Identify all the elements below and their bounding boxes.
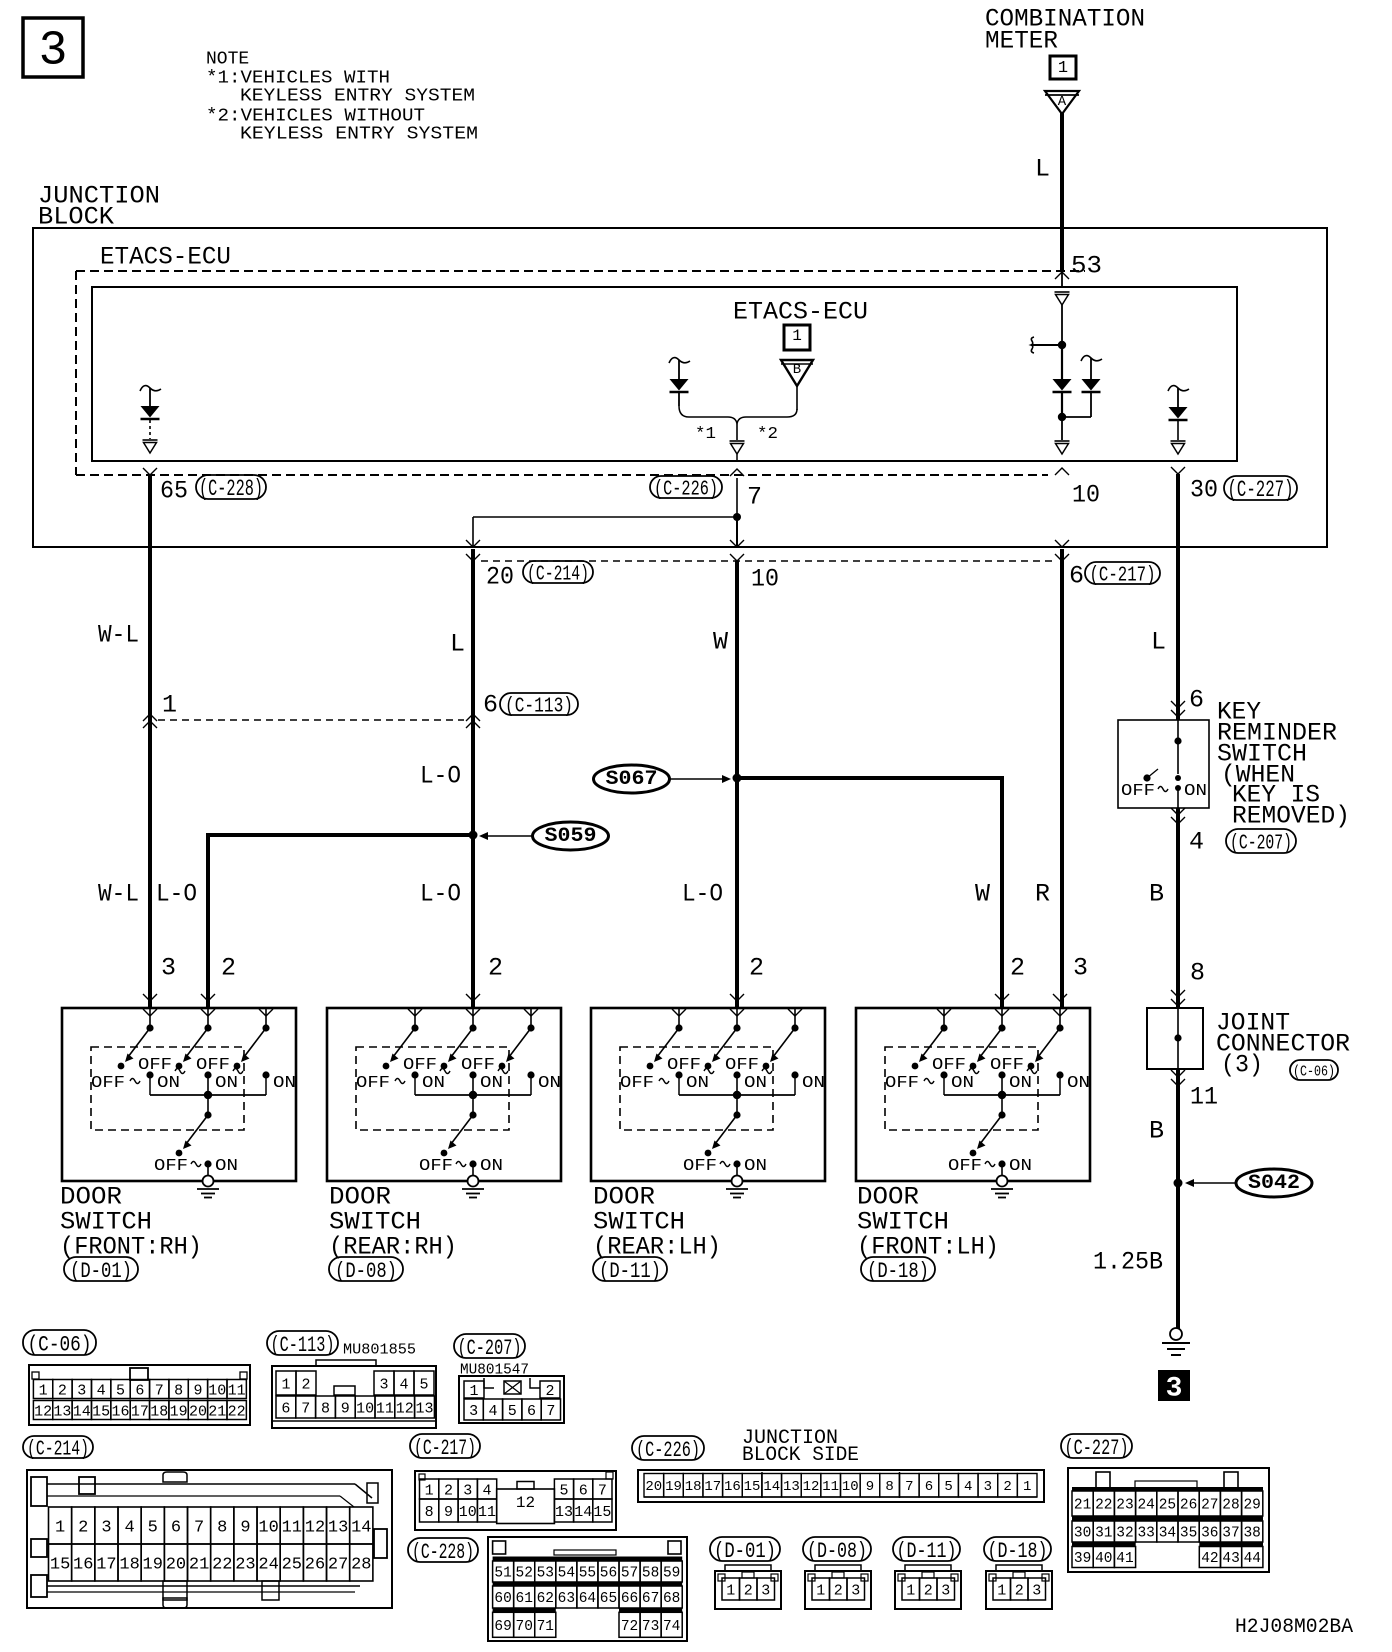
connector label C-226 — [650, 476, 722, 498]
svg-text:16: 16 — [73, 1556, 93, 1575]
svg-text:W: W — [975, 880, 990, 909]
svg-text:L: L — [450, 630, 465, 659]
connector C-228 pinout — [488, 1537, 687, 1641]
svg-text:5: 5 — [116, 1382, 125, 1399]
svg-text:(C-226): (C-226) — [654, 478, 718, 501]
svg-text:(C-226): (C-226) — [636, 1438, 700, 1463]
svg-text:1: 1 — [39, 1382, 48, 1399]
svg-text:A: A — [1058, 94, 1067, 110]
combination meter connector symbol 1/A — [1045, 56, 1079, 114]
svg-text:4: 4 — [1189, 828, 1204, 857]
svg-text:1: 1 — [906, 1582, 915, 1599]
svg-text:68: 68 — [663, 1591, 680, 1607]
svg-text:11: 11 — [228, 1382, 246, 1399]
door switch front LH caption — [857, 1183, 999, 1262]
svg-text:(C-207): (C-207) — [1230, 832, 1292, 855]
svg-text:B: B — [793, 362, 801, 378]
svg-text:8: 8 — [1190, 959, 1205, 988]
svg-text:3: 3 — [1166, 1374, 1183, 1405]
svg-text:7: 7 — [155, 1382, 164, 1399]
connector label C-207 — [1226, 829, 1296, 853]
wire L (pin 30 to key reminder switch) — [1176, 474, 1180, 720]
connector label D-11 — [593, 1257, 667, 1281]
diode for pin 30 — [1168, 386, 1189, 454]
svg-text:56: 56 — [600, 1566, 617, 1582]
svg-text:21: 21 — [208, 1403, 226, 1420]
svg-text:14: 14 — [351, 1519, 371, 1538]
wire R riser (pin 6 to front LH switch) — [1060, 549, 1064, 1008]
svg-text:9: 9 — [444, 1504, 453, 1521]
svg-text:16: 16 — [112, 1403, 130, 1420]
svg-text:6: 6 — [1069, 562, 1084, 591]
svg-text:L-O: L-O — [420, 880, 461, 909]
connector label D-18 — [861, 1257, 935, 1281]
junction block side caption — [742, 1427, 859, 1467]
key reminder switch box — [1118, 720, 1209, 808]
svg-text:7: 7 — [598, 1482, 607, 1499]
connector label C-207 — [454, 1334, 525, 1358]
svg-text:5: 5 — [944, 1479, 952, 1495]
svg-text:5: 5 — [508, 1403, 517, 1420]
svg-text:40: 40 — [1095, 1551, 1112, 1567]
svg-text:8: 8 — [885, 1479, 893, 1495]
connector label C-217 — [410, 1434, 480, 1458]
svg-text:3: 3 — [851, 1582, 860, 1599]
svg-text:7: 7 — [905, 1479, 913, 1495]
key reminder entry arrows — [1171, 701, 1185, 708]
connector label D-08 — [329, 1257, 403, 1281]
svg-text:*1:VEHICLES WITH: *1:VEHICLES WITH — [206, 69, 390, 89]
svg-text:*1: *1 — [695, 425, 716, 444]
svg-text:10: 10 — [1072, 481, 1100, 510]
svg-text:66: 66 — [621, 1591, 638, 1607]
svg-text:(D-11): (D-11) — [599, 1259, 661, 1284]
svg-text:2: 2 — [744, 1582, 753, 1599]
svg-text:1.25B: 1.25B — [1093, 1248, 1163, 1277]
connector C-227 pinout — [1068, 1468, 1269, 1572]
svg-text:6: 6 — [579, 1482, 588, 1499]
svg-text:6: 6 — [135, 1382, 144, 1399]
svg-text:13: 13 — [53, 1403, 71, 1420]
connector label D-01 — [64, 1257, 138, 1281]
svg-text:12: 12 — [305, 1519, 325, 1538]
svg-text:4: 4 — [964, 1479, 972, 1495]
wire pin 7 segment — [733, 478, 741, 548]
key reminder switch caption — [1217, 698, 1350, 831]
connector label C-06 — [23, 1330, 96, 1355]
svg-text:31: 31 — [1095, 1526, 1112, 1542]
svg-text:15: 15 — [50, 1556, 70, 1575]
svg-text:13: 13 — [415, 1400, 433, 1417]
svg-text:14: 14 — [763, 1479, 780, 1495]
svg-text:(D-18): (D-18) — [867, 1259, 929, 1284]
svg-text:18: 18 — [150, 1403, 168, 1420]
svg-text:9: 9 — [193, 1382, 202, 1399]
svg-text:(D-08): (D-08) — [807, 1539, 867, 1564]
svg-text:ON: ON — [1009, 1157, 1032, 1176]
svg-text:2: 2 — [301, 1376, 310, 1393]
svg-text:ON: ON — [215, 1074, 238, 1093]
svg-text:9: 9 — [866, 1479, 874, 1495]
connector label D-08 (bottom) — [803, 1537, 871, 1561]
svg-text:1: 1 — [816, 1582, 825, 1599]
svg-text:65: 65 — [160, 477, 188, 506]
svg-text:OFF: OFF — [885, 1074, 919, 1093]
connector D-11 pinout — [895, 1565, 961, 1609]
svg-text:16: 16 — [724, 1479, 741, 1495]
door switch rear RH (D-08) — [327, 994, 561, 1198]
pin 10 boundary arrow — [1055, 468, 1069, 475]
svg-text:1: 1 — [1058, 59, 1068, 78]
svg-text:(D-01): (D-01) — [70, 1259, 132, 1284]
door switch front RH caption — [60, 1183, 202, 1262]
note text — [206, 50, 478, 145]
svg-text:15: 15 — [92, 1403, 110, 1420]
svg-text:2: 2 — [488, 954, 503, 983]
svg-text:OFF: OFF — [403, 1056, 437, 1075]
wire pin7/10 crossing arrows — [730, 540, 744, 547]
svg-text:17: 17 — [704, 1479, 721, 1495]
svg-text:3: 3 — [39, 25, 68, 79]
svg-text:65: 65 — [600, 1591, 617, 1607]
svg-text:28: 28 — [1222, 1498, 1239, 1514]
svg-text:ON: ON — [1184, 782, 1207, 801]
svg-text:8: 8 — [425, 1504, 434, 1521]
svg-text:12: 12 — [803, 1479, 820, 1495]
svg-text:6: 6 — [171, 1519, 181, 1538]
svg-text:7: 7 — [194, 1519, 204, 1538]
svg-text:7: 7 — [546, 1403, 555, 1420]
svg-text:8: 8 — [217, 1519, 227, 1538]
svg-text:14: 14 — [73, 1403, 91, 1420]
svg-text:22: 22 — [212, 1556, 232, 1575]
svg-text:7: 7 — [747, 483, 762, 512]
svg-text:W-L: W-L — [98, 621, 139, 650]
svg-text:6: 6 — [1189, 686, 1204, 715]
svg-text:13: 13 — [555, 1504, 573, 1521]
svg-text:2: 2 — [834, 1582, 843, 1599]
svg-text:17: 17 — [131, 1403, 149, 1420]
svg-text:L-O: L-O — [156, 880, 197, 909]
connector C-06 pinout — [29, 1365, 250, 1425]
svg-text:43: 43 — [1222, 1551, 1239, 1567]
svg-text:1: 1 — [425, 1482, 434, 1499]
svg-text:ON: ON — [802, 1074, 825, 1093]
svg-text:B: B — [1149, 880, 1164, 909]
svg-text:5: 5 — [419, 1376, 428, 1393]
svg-text:ON: ON — [273, 1074, 296, 1093]
connector D-08 pinout — [805, 1565, 871, 1609]
svg-text:OFF: OFF — [196, 1056, 230, 1075]
svg-text:KEYLESS ENTRY SYSTEM: KEYLESS ENTRY SYSTEM — [240, 125, 478, 145]
svg-text:MU801855: MU801855 — [343, 1342, 416, 1359]
svg-text:ETACS-ECU: ETACS-ECU — [100, 243, 231, 272]
svg-text:3: 3 — [761, 1582, 770, 1599]
svg-text:10: 10 — [842, 1479, 859, 1495]
svg-text:3: 3 — [941, 1582, 950, 1599]
svg-text:24: 24 — [258, 1556, 278, 1575]
svg-text:4: 4 — [399, 1376, 408, 1393]
svg-text:4: 4 — [124, 1519, 134, 1538]
joint connector exit arrows — [1171, 1070, 1185, 1077]
svg-text:OFF: OFF — [91, 1074, 125, 1093]
diode for pin 65 — [140, 386, 161, 453]
svg-text:22: 22 — [228, 1403, 246, 1420]
svg-text:11: 11 — [282, 1519, 302, 1538]
svg-text:53: 53 — [1071, 252, 1102, 281]
svg-text:15: 15 — [744, 1479, 761, 1495]
svg-text:6: 6 — [925, 1479, 933, 1495]
svg-text:(C-214): (C-214) — [527, 563, 589, 586]
svg-text:(C-217): (C-217) — [414, 1436, 476, 1461]
junction block label — [38, 182, 160, 232]
svg-text:19: 19 — [170, 1403, 188, 1420]
svg-text:8: 8 — [321, 1400, 330, 1417]
splice S067 junction — [733, 774, 1003, 1009]
svg-text:S042: S042 — [1248, 1172, 1300, 1195]
connector dashed line C-214/C-217 — [481, 560, 1053, 562]
svg-text:70: 70 — [516, 1619, 533, 1635]
ETACS-ECU dashed boundary — [76, 271, 1085, 475]
joint connector caption — [1216, 1009, 1350, 1080]
svg-text:10: 10 — [208, 1382, 226, 1399]
door switch rear LH (D-11) — [591, 994, 825, 1198]
svg-text:OFF: OFF — [667, 1056, 701, 1075]
svg-text:27: 27 — [1201, 1498, 1218, 1514]
svg-text:(C-228): (C-228) — [199, 476, 263, 502]
svg-text:6: 6 — [527, 1403, 536, 1420]
wire L from combination meter pin 53 — [1060, 113, 1064, 270]
svg-text:3: 3 — [469, 1403, 478, 1420]
svg-text:ETACS-ECU: ETACS-ECU — [733, 298, 868, 327]
svg-text:2: 2 — [1003, 1479, 1011, 1495]
svg-text:2: 2 — [749, 954, 764, 983]
connector C-214 pinout — [27, 1470, 392, 1608]
svg-text:OFF: OFF — [620, 1074, 654, 1093]
connector label C-226 (bottom) — [632, 1436, 704, 1460]
svg-text:H2J08M02BA: H2J08M02BA — [1235, 1616, 1353, 1639]
svg-text:OFF: OFF — [138, 1056, 172, 1075]
svg-text:71: 71 — [537, 1619, 554, 1635]
svg-text:10: 10 — [258, 1519, 278, 1538]
svg-text:7: 7 — [301, 1400, 310, 1417]
pin 53 internal circuit with twin diodes — [1031, 292, 1102, 454]
svg-text:4: 4 — [483, 1482, 492, 1499]
svg-text:(D-11): (D-11) — [897, 1539, 957, 1564]
svg-text:22: 22 — [1095, 1498, 1112, 1514]
svg-text:29: 29 — [1243, 1498, 1260, 1514]
diode *1 — [669, 358, 690, 406]
connector label C-113 — [500, 693, 578, 715]
svg-text:(C-207): (C-207) — [458, 1336, 522, 1361]
connector label C-214 — [523, 561, 593, 583]
svg-text:13: 13 — [328, 1519, 348, 1538]
connector D-18 pinout — [986, 1565, 1052, 1609]
connector label C-227 (bottom) — [1061, 1434, 1132, 1458]
junction block box — [33, 228, 1327, 547]
svg-text:2: 2 — [1015, 1582, 1024, 1599]
svg-text:3: 3 — [1073, 954, 1088, 983]
svg-text:ON: ON — [215, 1157, 238, 1176]
svg-text:20: 20 — [189, 1403, 207, 1420]
svg-text:3: 3 — [463, 1482, 472, 1499]
svg-text:38: 38 — [1243, 1526, 1260, 1542]
svg-text:59: 59 — [663, 1566, 680, 1582]
svg-text:2: 2 — [221, 954, 236, 983]
svg-text:(D-18): (D-18) — [988, 1539, 1048, 1564]
connector label C-214 — [23, 1436, 93, 1458]
svg-text:(3): (3) — [1221, 1051, 1263, 1080]
svg-text:11: 11 — [1190, 1083, 1218, 1112]
svg-text:OFF: OFF — [683, 1157, 717, 1176]
svg-text:*2: *2 — [757, 425, 778, 444]
svg-text:W: W — [713, 628, 728, 657]
svg-text:OFF: OFF — [356, 1074, 390, 1093]
connector C-113 pinout — [272, 1360, 436, 1428]
pin 7 boundary arrow — [730, 469, 744, 476]
pin 7 output arrow — [730, 440, 745, 442]
pin 53 connector arrow — [1055, 272, 1069, 279]
connector D-01 pinout — [715, 1565, 781, 1609]
svg-text:1: 1 — [792, 327, 802, 345]
svg-text:1: 1 — [55, 1519, 65, 1538]
svg-text:S067: S067 — [606, 768, 658, 791]
C-113 dashed connector line — [158, 719, 464, 721]
svg-text:19: 19 — [143, 1556, 163, 1575]
svg-text:35: 35 — [1180, 1526, 1197, 1542]
svg-text:69: 69 — [494, 1619, 511, 1635]
svg-text:(D-01): (D-01) — [714, 1539, 776, 1564]
svg-text:4: 4 — [488, 1403, 497, 1420]
pin 6 arrows (C-113) — [466, 714, 480, 721]
svg-text:2: 2 — [58, 1382, 67, 1399]
svg-text:55: 55 — [579, 1566, 596, 1582]
svg-text:20: 20 — [166, 1556, 186, 1575]
pin 6 crossing arrows (C-217) — [1055, 540, 1069, 547]
svg-text:(C-214): (C-214) — [27, 1438, 89, 1461]
svg-text:18: 18 — [685, 1479, 702, 1495]
svg-text:23: 23 — [1116, 1498, 1133, 1514]
svg-text:(D-08): (D-08) — [335, 1259, 397, 1284]
svg-text:20: 20 — [645, 1479, 662, 1495]
svg-text:ON: ON — [744, 1157, 767, 1176]
svg-text:OFF: OFF — [419, 1157, 453, 1176]
svg-text:54: 54 — [558, 1566, 575, 1582]
connector label C-227 — [1224, 476, 1297, 500]
svg-text:OFF: OFF — [932, 1056, 966, 1075]
connector label D-01 (bottom) — [710, 1537, 780, 1561]
triangle B symbol with box 1 (keyless) — [781, 325, 813, 410]
svg-text:18: 18 — [119, 1556, 139, 1575]
svg-text:1: 1 — [726, 1582, 735, 1599]
svg-text:14: 14 — [574, 1504, 592, 1521]
svg-text:30: 30 — [1190, 476, 1218, 505]
svg-text:5: 5 — [148, 1519, 158, 1538]
svg-text:2: 2 — [545, 1383, 554, 1400]
svg-text:L: L — [1035, 155, 1050, 184]
ground symbol (body ground) — [1162, 1328, 1190, 1355]
connector C-207 pinout — [459, 1376, 564, 1423]
svg-text:23: 23 — [235, 1556, 255, 1575]
svg-text:67: 67 — [642, 1591, 659, 1607]
svg-text:L-O: L-O — [420, 762, 461, 791]
svg-text:2: 2 — [924, 1582, 933, 1599]
svg-text:64: 64 — [579, 1591, 596, 1607]
svg-text:17: 17 — [96, 1556, 116, 1575]
svg-text:ON: ON — [1067, 1074, 1090, 1093]
svg-text:3: 3 — [101, 1519, 111, 1538]
splice S042 — [1174, 1169, 1313, 1197]
wire W/L-O riser (pin 10 to rear LH switch) — [735, 561, 739, 1008]
svg-text:(C-113): (C-113) — [505, 695, 573, 718]
svg-text:ON: ON — [422, 1074, 445, 1093]
svg-text:ON: ON — [744, 1074, 767, 1093]
wire W-L pin 65 down to door switch front RH — [148, 475, 152, 1008]
pin 20 crossing arrows — [466, 540, 480, 547]
svg-text:ON: ON — [480, 1157, 503, 1176]
svg-text:37: 37 — [1222, 1526, 1239, 1542]
svg-text:(C-06): (C-06) — [1293, 1063, 1335, 1080]
svg-text:R: R — [1035, 880, 1050, 909]
svg-text:9: 9 — [240, 1519, 250, 1538]
svg-text:OFF: OFF — [990, 1056, 1024, 1075]
svg-text:52: 52 — [516, 1566, 533, 1582]
node: lead into ETACS ECU — [1061, 272, 1063, 287]
svg-text:51: 51 — [494, 1566, 511, 1582]
svg-text:1: 1 — [469, 1383, 478, 1400]
svg-text:34: 34 — [1159, 1526, 1176, 1542]
splice S059 junction — [208, 831, 478, 1009]
svg-text:2: 2 — [78, 1519, 88, 1538]
svg-text:11: 11 — [376, 1400, 394, 1417]
svg-text:15: 15 — [593, 1504, 611, 1521]
svg-text:NOTE: NOTE — [206, 50, 249, 70]
svg-text:ON: ON — [951, 1074, 974, 1093]
svg-text:BLOCK SIDE: BLOCK SIDE — [742, 1444, 859, 1467]
svg-text:57: 57 — [621, 1566, 638, 1582]
svg-text:B: B — [1149, 1117, 1164, 1146]
svg-text:10: 10 — [356, 1400, 374, 1417]
wire L/L-O riser (pin 20 to rear RH switch) — [471, 549, 475, 1008]
svg-text:REMOVED): REMOVED) — [1232, 802, 1350, 831]
svg-text:ON: ON — [686, 1074, 709, 1093]
svg-text:OFF: OFF — [154, 1157, 188, 1176]
svg-text:74: 74 — [663, 1619, 680, 1635]
svg-text:ON: ON — [1009, 1074, 1032, 1093]
svg-text:(C-113): (C-113) — [271, 1333, 335, 1358]
svg-text:2: 2 — [1010, 954, 1025, 983]
connector label C-113 — [267, 1331, 338, 1355]
svg-text:25: 25 — [282, 1556, 302, 1575]
svg-text:26: 26 — [305, 1556, 325, 1575]
svg-text:11: 11 — [822, 1479, 839, 1495]
svg-text:27: 27 — [328, 1556, 348, 1575]
svg-text:30: 30 — [1074, 1526, 1091, 1542]
joint connector (3) box — [1147, 1008, 1203, 1069]
svg-text:11: 11 — [478, 1504, 496, 1521]
ETACS-ECU inner box — [92, 287, 1237, 461]
svg-text:3: 3 — [1032, 1582, 1041, 1599]
svg-text:(C-227): (C-227) — [1228, 477, 1294, 503]
door switch front RH (D-01) — [62, 994, 296, 1198]
page number box 3 — [23, 18, 83, 79]
svg-text:METER: METER — [985, 27, 1058, 56]
svg-text:6: 6 — [281, 1400, 290, 1417]
svg-text:58: 58 — [642, 1566, 659, 1582]
svg-text:42: 42 — [1201, 1551, 1218, 1567]
svg-text:39: 39 — [1074, 1551, 1091, 1567]
combination meter label — [985, 5, 1145, 56]
